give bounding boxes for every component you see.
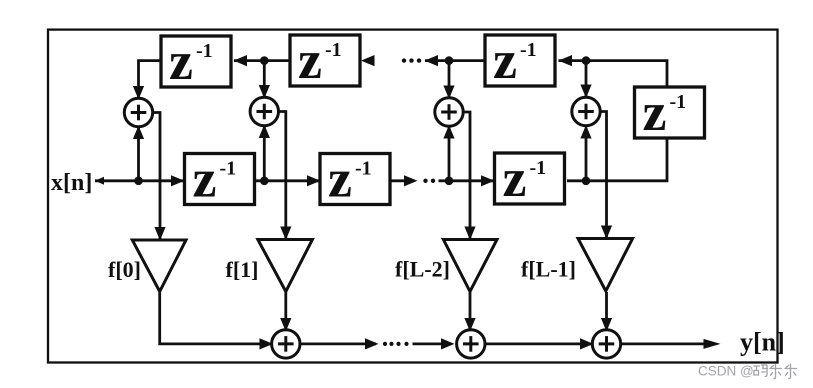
arrow into M3 (481, 175, 495, 186)
junction node main col3 (445, 177, 454, 186)
wire: dots to M3 input (439, 179, 494, 182)
svg-text:y[n]: y[n] (740, 328, 785, 357)
wire: top node col4 down to adder A4 (585, 61, 588, 100)
arrow into M2 (307, 175, 321, 186)
junction node top col3 (445, 56, 454, 65)
outer frame border (48, 30, 778, 363)
junction node main col1 (134, 177, 143, 186)
wire: B2 to B3 (485, 342, 594, 345)
arrow into T1 right (234, 55, 248, 66)
arrow up into A4 bottom (580, 125, 591, 139)
small arrow at x[n] line start (95, 177, 104, 185)
svg-text:x[n]: x[n] (51, 170, 92, 196)
wire: M1 to M2 (256, 179, 320, 182)
wire: main node col2 up to adder A2 (263, 127, 266, 181)
delay box R (635, 82, 705, 142)
arrow down into B1 top (280, 318, 291, 332)
ellipsis dots top chain (402, 58, 421, 62)
arrow mid main dots right (404, 175, 418, 186)
wire: B1 output toward dots (300, 342, 376, 345)
wire: M3 output right and up into delay R (567, 140, 667, 181)
adder B2 (457, 330, 485, 358)
wire: multiplier fL2 output down to adder B2 (469, 292, 472, 331)
wire: M2 output toward dots (390, 179, 415, 182)
delay box T2 (290, 30, 360, 90)
arrow down into B2 top (464, 318, 475, 332)
delay box M2 (320, 149, 390, 209)
wire: multiplier f0 output down then right to adder B1 (160, 293, 273, 344)
multiplier fL2 triangle (443, 240, 497, 292)
svg-text:f[L-1]: f[L-1] (521, 257, 576, 282)
wire: top node col3 down to adder A3 (448, 61, 451, 100)
wire: main node col4 up to adder A4 (585, 128, 588, 181)
svg-text:f[0]: f[0] (108, 257, 141, 282)
multiplier f0 triangle (132, 240, 186, 292)
svg-text:f[L-2]: f[L-2] (395, 257, 450, 282)
arrow down into A1 (133, 86, 144, 100)
delay box T3 (485, 30, 555, 90)
arrow down into A2 (259, 85, 270, 99)
delay box T1 (161, 31, 231, 91)
wire: multiplier f1 output down to adder B1 (284, 292, 287, 331)
arrow into M1 (171, 175, 185, 186)
wire: B3 output to y[n] (620, 342, 714, 345)
adder A3 (435, 98, 463, 126)
arrow down into A3 (443, 86, 454, 100)
arrow down into fL1 (601, 226, 612, 240)
arrow down into fL2 (464, 227, 475, 241)
wire: T2 output to T1 input (234, 59, 289, 62)
arrow up into A1 bottom (133, 126, 144, 140)
wire: multiplier fL1 output down to adder B3 (605, 292, 608, 331)
watermark glyph le 2 (785, 364, 797, 379)
watermark glyph ma (754, 365, 768, 377)
wire: adder A4 output hook down to multiplier fL1 (599, 112, 606, 238)
arrow mid top dots left (425, 55, 439, 66)
arrow into T3 right (559, 55, 573, 66)
arrow down into f0 (154, 227, 165, 241)
ellipsis dots bottom chain (383, 342, 409, 346)
wire: from delay R up and left to T3 input (559, 61, 668, 87)
arrow down into A4 (580, 85, 591, 99)
junction node top col4 (582, 56, 591, 65)
adder B1 (272, 330, 300, 358)
wire: main node col1 up to adder A1 (137, 128, 140, 181)
wire: main node col3 up to adder A3 (448, 128, 451, 181)
arrow into B2 left (441, 338, 455, 349)
adder B3 (592, 330, 620, 358)
delay box M1 (185, 149, 255, 209)
junction node top col2 (260, 56, 269, 65)
wire: T3 output left toward dots (425, 59, 484, 62)
arrow up into A2 bottom (259, 125, 270, 139)
adder A4 (572, 97, 600, 125)
arrow into B1 left (260, 338, 274, 349)
svg-text:CSDN @: CSDN @ (698, 363, 754, 378)
arrow down into f1 (280, 227, 291, 241)
svg-text:f[1]: f[1] (226, 257, 259, 282)
junction node main col4 (582, 177, 591, 186)
junction node main col2 (260, 177, 269, 186)
arrow up into A3 bottom (443, 125, 454, 139)
wire: x[n] input line to M1 (95, 179, 184, 182)
multiplier fL1 triangle (578, 239, 633, 292)
delay box M3 (495, 148, 565, 208)
wire: dots to B2 input (413, 342, 444, 345)
adder A1 (124, 98, 152, 126)
wire: T1 output left then down to adder A1 (139, 61, 160, 100)
adder A2 (250, 97, 278, 125)
watermark glyph le 1 (770, 364, 782, 379)
wire: top node col2 down to adder A2 (263, 61, 266, 100)
arrow down into B3 top (601, 318, 612, 332)
arrow into T2 right (361, 55, 375, 66)
multiplier f1 triangle (258, 240, 313, 292)
arrow into B3 left (580, 338, 594, 349)
wire: adder A3 output hook down to multiplier fL2 (462, 112, 470, 239)
arrow mid bottom dots right (365, 338, 379, 349)
arrow output y[n] (704, 339, 721, 349)
ellipsis dots main chain (423, 179, 435, 183)
wire: adder A1 output hook down to multiplier f0 (152, 113, 161, 240)
wire: adder A2 output hook down to multiplier f1 (278, 112, 286, 239)
